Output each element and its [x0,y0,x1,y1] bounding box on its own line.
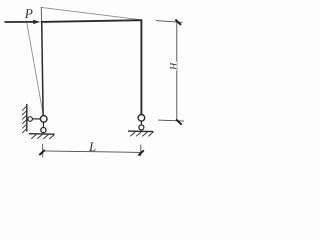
left support wall line [26,104,28,132]
dimension L left extension line [42,144,44,158]
right support ground hatching [130,132,153,137]
left support link A-C [42,120,44,128]
dimension L label [89,142,96,151]
right support link D-E [140,119,142,126]
dimension L left tick [39,150,45,155]
right column [140,20,142,115]
load P arrow [5,20,41,24]
dimension H line [176,22,178,121]
dimension H top extension line [156,21,183,23]
left column [42,21,43,115]
dimension H label [170,62,178,71]
dimension L line [43,151,141,153]
left support link B-A [32,118,42,120]
dimension H bottom tick [176,119,182,124]
deflected left column (thin diagonal line) [27,23,44,116]
left support hinge circle A (column base) [40,116,47,123]
right support hinge circle D (column base) [138,115,145,122]
left support ground line [29,133,55,136]
dimension H top tick [175,20,181,25]
left column stub above beam [40,7,42,22]
left support ground hatching [31,134,54,139]
left support hinge circle C (ground) [41,128,46,133]
right support hinge circle E (ground) [139,125,144,130]
dimension L right extension line [140,145,142,157]
deflected beam (thin diagonal line) [41,7,140,19]
beam [41,20,143,22]
right support ground line [128,130,154,133]
load P label [25,9,33,18]
left support wall hatching [22,106,27,133]
left support hinge circle B (on wall) [28,117,33,122]
dimension H bottom extension line [158,120,184,121]
dimension L right tick [138,150,143,155]
